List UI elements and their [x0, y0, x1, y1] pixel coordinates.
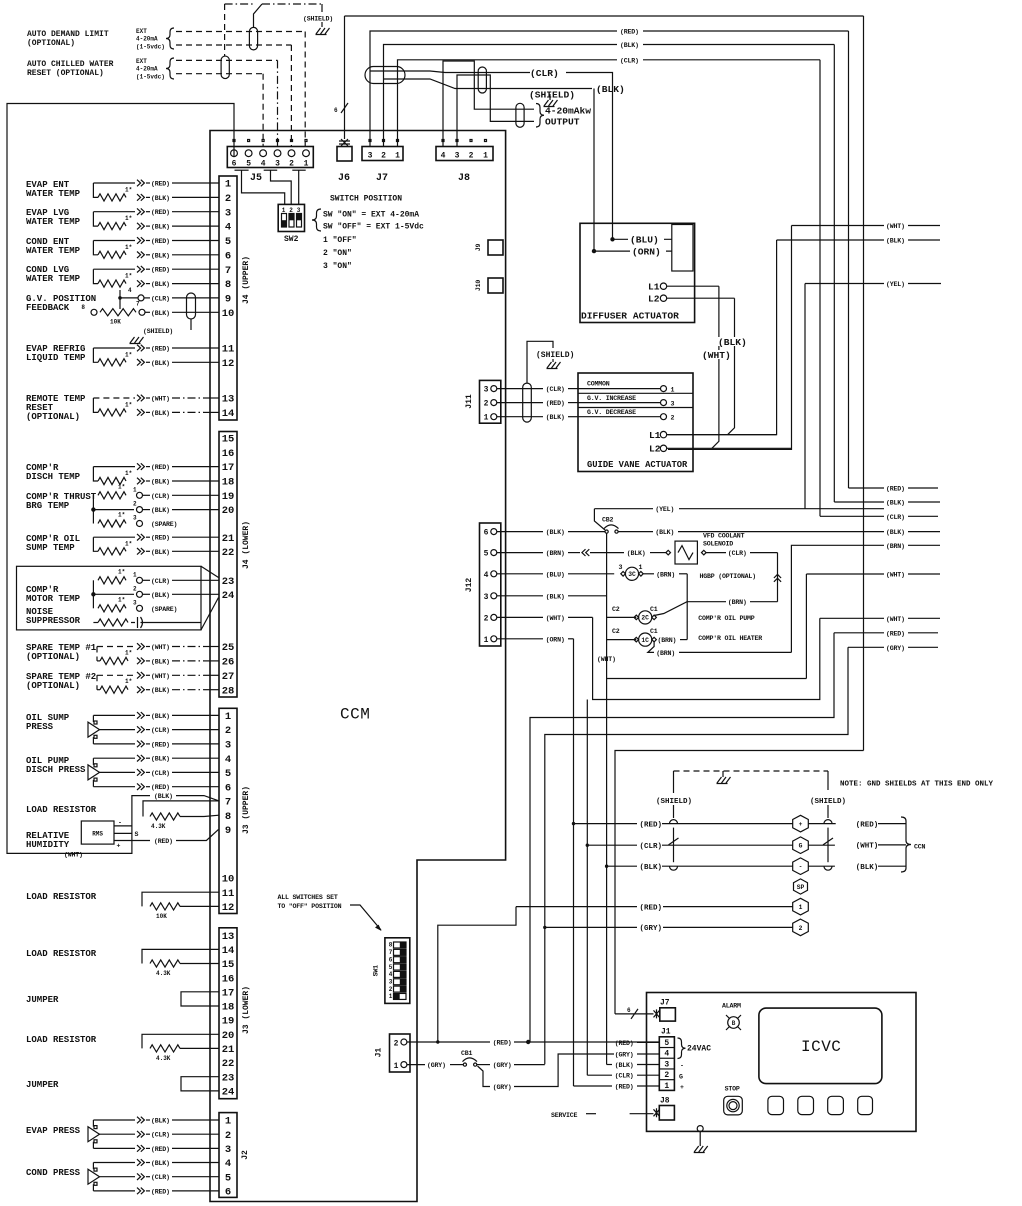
gva G.V. INCREASE terminal	[578, 395, 675, 408]
svg-text:3: 3	[664, 1060, 669, 1069]
svg-text:(WHT): (WHT)	[886, 572, 905, 579]
svg-text:(SPARE): (SPARE)	[151, 521, 177, 528]
svg-text:20: 20	[222, 505, 235, 517]
svg-text:DIFFUSER ACTUATOR: DIFFUSER ACTUATOR	[581, 311, 679, 322]
svg-text:(CLR): (CLR)	[620, 57, 639, 64]
CCM module board outline	[210, 131, 506, 1202]
svg-text:J11: J11	[465, 394, 474, 409]
svg-text:1: 1	[133, 571, 137, 578]
svg-text:(YEL): (YEL)	[655, 506, 674, 513]
svg-text:(BLK): (BLK)	[151, 658, 170, 665]
svg-text:(BLK): (BLK)	[546, 414, 565, 421]
resistor thermistor	[98, 280, 126, 287]
wire 2C C2 stub	[607, 616, 637, 618]
svg-text:3: 3	[671, 401, 675, 408]
svg-text:11: 11	[222, 344, 235, 356]
wire icvc J1-1 (RED)	[574, 1084, 660, 1091]
svg-text:5: 5	[225, 768, 231, 780]
svg-text:1: 1	[225, 711, 231, 723]
svg-text:3: 3	[368, 152, 373, 161]
wire (WHT) top tail	[908, 225, 940, 227]
svg-text:(BRN): (BRN)	[656, 571, 675, 578]
connector icvc J7	[654, 999, 676, 1022]
shield capsule J11	[523, 383, 532, 422]
svg-text:L2: L2	[648, 294, 660, 305]
wire (BLK) field top	[777, 239, 884, 241]
svg-text:STOP: STOP	[725, 1085, 740, 1092]
label (WHT) margin pump	[806, 573, 884, 575]
svg-text:(GRY): (GRY)	[615, 1052, 634, 1059]
svg-text:AUTO CHILLED WATER: AUTO CHILLED WATER	[27, 60, 114, 69]
svg-text:1*: 1*	[118, 483, 125, 490]
svg-text:(OPTIONAL): (OPTIONAL)	[26, 412, 80, 422]
svg-text:12: 12	[222, 358, 235, 370]
label (RED) hex1	[637, 902, 663, 911]
wire spare sensor loop	[97, 647, 135, 661]
svg-text:VFD COOLANT: VFD COOLANT	[703, 533, 745, 540]
softkey button 2	[798, 1096, 814, 1114]
wire J11-2 (RED)	[497, 400, 578, 407]
svg-text:G: G	[799, 843, 803, 850]
svg-text:15: 15	[222, 434, 235, 446]
resistor thermistor	[98, 251, 126, 258]
svg-text:LOAD RESISTOR: LOAD RESISTOR	[26, 892, 97, 902]
svg-text:2: 2	[394, 1040, 399, 1049]
wire bundle row 5 comm	[615, 751, 864, 1014]
svg-text:2: 2	[225, 1130, 231, 1142]
node (BLU)	[610, 233, 672, 246]
svg-text:7: 7	[389, 949, 393, 956]
wire service to J8	[630, 1113, 654, 1115]
wire hex2 (GRY) row	[543, 926, 546, 929]
svg-text:4.3K: 4.3K	[156, 970, 171, 977]
svg-text:(GRY): (GRY)	[427, 1062, 446, 1069]
svg-text:C1: C1	[650, 606, 658, 613]
label (CLR) margin	[820, 515, 884, 517]
svg-text:24VAC: 24VAC	[687, 1045, 711, 1054]
connector J1 ccm	[390, 1034, 411, 1072]
svg-text:(SHIELD): (SHIELD)	[529, 90, 575, 101]
svg-text:(BLK): (BLK)	[151, 507, 170, 514]
svg-text:4: 4	[225, 1158, 231, 1170]
svg-text:10: 10	[222, 874, 235, 886]
wire reset leads	[137, 395, 219, 417]
node (ORN)	[592, 245, 672, 258]
svg-text:8: 8	[81, 304, 85, 311]
resistor thermistor	[98, 548, 126, 555]
wire shield drain	[190, 319, 192, 330]
wire (YEL) tail	[908, 283, 941, 285]
svg-text:GUIDE VANE ACTUATOR: GUIDE VANE ACTUATOR	[587, 460, 688, 470]
wire demand limit + to J5 pin1	[176, 31, 305, 33]
wire ccm J1-2 riser to hex1	[438, 907, 516, 1042]
J5 pin group brackets	[235, 169, 306, 171]
wire sensor loop	[93, 269, 135, 283]
svg-text:(RED): (RED)	[151, 784, 170, 791]
svg-text:J8: J8	[458, 173, 470, 184]
svg-text:(ORN): (ORN)	[632, 247, 661, 258]
connector J9	[488, 240, 503, 255]
wire J7 pin1 riser to (CLR) bus	[398, 60, 618, 147]
svg-text:(RED): (RED)	[151, 1146, 170, 1153]
svg-text:1: 1	[671, 387, 675, 394]
gva G.V. DECREASE terminal	[578, 409, 675, 422]
svg-text:1*: 1*	[125, 273, 132, 280]
wire evap press leads	[93, 1117, 219, 1153]
solenoid VFD coolant	[666, 541, 706, 564]
wire (CLR) bus right	[643, 59, 820, 61]
wire net orn down	[573, 639, 575, 1086]
svg-text:L1: L1	[648, 282, 660, 293]
svg-text:J4 (UPPER): J4 (UPPER)	[242, 256, 251, 304]
svg-text:CB1: CB1	[461, 1050, 473, 1057]
svg-text:-: -	[680, 1063, 684, 1070]
label (BLK) diffuser drop	[718, 337, 751, 346]
svg-text:1: 1	[483, 152, 488, 161]
wire ccn dashed shield tie	[674, 770, 829, 772]
diffuser L2 terminal	[648, 294, 735, 305]
svg-text:J1: J1	[375, 1048, 384, 1058]
ground ccn shields	[722, 771, 724, 777]
wire hex G right	[808, 844, 835, 846]
connector J2	[219, 1113, 237, 1199]
svg-text:3: 3	[389, 978, 393, 985]
svg-text:CCM: CCM	[340, 706, 370, 724]
svg-text:HGBP (OPTIONAL): HGBP (OPTIONAL)	[700, 573, 756, 580]
svg-text:(BLK): (BLK)	[627, 550, 646, 557]
label AUTO DEMAND LIMIT (OPTIONAL)	[27, 30, 109, 48]
wire suppressor tie to pin 24	[201, 598, 219, 630]
svg-text:22: 22	[222, 547, 235, 559]
svg-text:BRG TEMP: BRG TEMP	[26, 501, 70, 511]
breaker CB1	[461, 1050, 477, 1066]
svg-text:17: 17	[222, 987, 235, 999]
svg-text:(BLK): (BLK)	[615, 1062, 634, 1069]
svg-text:(WHT): (WHT)	[856, 843, 879, 851]
svg-text:(SHIELD): (SHIELD)	[536, 351, 574, 360]
svg-text:J3 (UPPER): J3 (UPPER)	[242, 786, 251, 834]
svg-text:2: 2	[225, 725, 231, 737]
terminal hex 1	[793, 898, 809, 915]
wire CB1 branch (GRY) to icvc J1-4	[478, 1054, 615, 1091]
wire ccn shield left stem	[673, 771, 675, 793]
svg-text:(CLR): (CLR)	[151, 578, 170, 585]
diffuser L1 terminal	[648, 282, 719, 293]
label AUTO CHILLED WATER RESET (OPTIONAL)	[27, 60, 114, 78]
wire comm bus top	[345, 15, 864, 17]
svg-text:1*: 1*	[125, 470, 132, 477]
wire twisted pair CLR	[370, 71, 530, 73]
wire bus comm vertical	[863, 16, 865, 751]
wire oil pump disch press leads	[93, 755, 219, 791]
svg-text:1*: 1*	[118, 512, 125, 519]
svg-text:COMMON: COMMON	[587, 381, 610, 388]
wire J5 to SW2 switch 3	[298, 170, 300, 204]
wire leads with labels	[137, 463, 219, 485]
wire icvc J1-2 (CLR)	[587, 1073, 659, 1080]
svg-text:WATER TEMP: WATER TEMP	[26, 189, 81, 199]
shield capsule J7 pair	[365, 67, 405, 84]
svg-text:8: 8	[389, 942, 393, 949]
svg-text:G.V. INCREASE: G.V. INCREASE	[587, 395, 636, 402]
svg-text:LOAD RESISTOR: LOAD RESISTOR	[26, 1035, 97, 1045]
svg-text:10: 10	[222, 308, 235, 320]
svg-text:(OPTIONAL): (OPTIONAL)	[26, 652, 80, 662]
label EXT 4-20mA input 2	[136, 58, 174, 81]
svg-text:SW "ON" = EXT 4-20mA: SW "ON" = EXT 4-20mA	[323, 211, 419, 220]
label (GRY) icvc feed	[848, 646, 884, 648]
wire bundle row 4 gry	[545, 647, 848, 1064]
svg-text:(RED): (RED)	[151, 267, 170, 274]
box DIFFUSER ACTUATOR	[580, 223, 695, 322]
svg-text:L1: L1	[649, 430, 661, 441]
wire sensor loop	[93, 183, 135, 197]
svg-text:14: 14	[222, 945, 235, 957]
svg-text:NOTE: GND SHIELDS AT THIS END: NOTE: GND SHIELDS AT THIS END ONLY	[840, 781, 994, 789]
svg-text:1: 1	[225, 1116, 231, 1128]
wire CB2 out (BLK) row	[618, 529, 884, 536]
svg-text:6: 6	[225, 782, 231, 794]
label (WHT) diffuser drop	[702, 350, 735, 359]
wire (RED) bus to right	[643, 30, 849, 32]
wire CB2 feed down	[606, 533, 608, 678]
wire icvc J1-3 (BLK)	[607, 1062, 660, 1069]
svg-text:(BLK): (BLK)	[546, 529, 565, 536]
resistor thermistor	[98, 223, 126, 230]
label (WHT) icvc feed	[820, 617, 884, 619]
svg-text:(OPTIONAL): (OPTIONAL)	[26, 681, 80, 691]
svg-text:13: 13	[222, 394, 235, 406]
svg-text:3: 3	[455, 152, 460, 161]
wire J12-1 (ORN)	[497, 636, 574, 643]
connector J10	[488, 278, 503, 293]
svg-text:(BLK): (BLK)	[151, 687, 170, 694]
svg-text:28: 28	[222, 685, 235, 697]
svg-text:SERVICE: SERVICE	[551, 1112, 578, 1119]
arrow to SW1	[350, 905, 382, 931]
wire 1C C1 jog to (BRN) row	[648, 642, 792, 657]
svg-text:(BLK): (BLK)	[151, 479, 170, 486]
softkey button 1	[768, 1096, 784, 1114]
terminal hex +	[793, 815, 809, 832]
wire ccn (BLK) cable	[856, 864, 906, 872]
svg-text:(RED): (RED)	[856, 821, 879, 829]
svg-text:20: 20	[222, 1030, 235, 1042]
svg-text:(BLK): (BLK)	[151, 310, 170, 317]
svg-text:EXT: EXT	[136, 58, 147, 65]
wire spare leads	[137, 643, 219, 665]
wire J11-3 (CLR)	[497, 386, 578, 393]
svg-text:4: 4	[664, 1050, 669, 1059]
contactor 1C	[612, 628, 658, 646]
svg-text:7: 7	[225, 265, 231, 277]
wire sensor loop	[93, 348, 135, 362]
wire leads with labels	[137, 208, 219, 230]
svg-text:9: 9	[225, 825, 231, 837]
svg-text:COND PRESS: COND PRESS	[26, 1168, 81, 1178]
resistor load 10K	[142, 892, 219, 920]
svg-text:7: 7	[136, 301, 140, 308]
svg-text:(BLK): (BLK)	[886, 238, 905, 245]
svg-text:(BLK): (BLK)	[596, 84, 625, 95]
svg-text:(RED): (RED)	[151, 1188, 170, 1195]
sensor RMS relative humidity	[81, 821, 114, 844]
svg-text:(BLK): (BLK)	[151, 1160, 170, 1167]
svg-text:1*: 1*	[125, 215, 132, 222]
svg-text:EVAP PRESS: EVAP PRESS	[26, 1126, 81, 1136]
wire 2C C1 to (BRN)	[654, 599, 777, 615]
label (RED) margin	[849, 487, 885, 489]
wire J12-4 (BLU) to 3C	[497, 571, 614, 578]
svg-text:1: 1	[664, 1082, 669, 1091]
diffuser terminal block	[672, 225, 693, 272]
svg-text:(WHT): (WHT)	[546, 615, 565, 622]
svg-text:9: 9	[225, 294, 231, 306]
svg-text:(BLK): (BLK)	[151, 1118, 170, 1125]
svg-text:22: 22	[222, 1058, 235, 1070]
label VFD COOLANT SOLENOID	[703, 533, 745, 548]
svg-text:(GRY): (GRY)	[493, 1084, 512, 1091]
DIP switch SW2	[278, 204, 304, 231]
svg-text:2: 2	[469, 152, 474, 161]
wire YEL drop to CB2	[594, 509, 605, 530]
wire pot wiper to pin 9	[120, 295, 219, 303]
wire sensor loop	[93, 537, 135, 551]
svg-text:2: 2	[799, 925, 803, 932]
svg-text:6: 6	[232, 160, 237, 169]
wire spare sensor loop	[97, 675, 135, 689]
connector J7	[362, 140, 403, 161]
resistor load 4.3K	[142, 949, 219, 977]
alarm bell icon	[722, 1003, 741, 1031]
svg-text:(CLR): (CLR)	[151, 1132, 170, 1139]
svg-text:3: 3	[225, 207, 231, 219]
svg-text:1*: 1*	[125, 540, 132, 547]
svg-text:26: 26	[222, 657, 235, 669]
connector J5	[227, 140, 313, 169]
svg-text:L2: L2	[649, 444, 661, 455]
svg-text:SOLENOID: SOLENOID	[703, 541, 733, 548]
svg-text:1: 1	[389, 993, 393, 1000]
svg-text:2: 2	[225, 193, 231, 205]
svg-text:(BLU): (BLU)	[546, 571, 565, 578]
svg-text:J5: J5	[250, 173, 262, 184]
svg-text:6: 6	[225, 1187, 231, 1199]
svg-text:14: 14	[222, 408, 235, 420]
svg-text:(RED): (RED)	[640, 904, 663, 912]
svg-text:(BLK): (BLK)	[151, 549, 170, 556]
svg-text:SUPPRESSOR: SUPPRESSOR	[26, 616, 81, 626]
svg-text:1*: 1*	[118, 568, 125, 575]
wire hex + right	[808, 823, 836, 825]
label (RED) icvc feed	[834, 632, 884, 634]
icvc chassis ground	[694, 1126, 708, 1153]
contactor 3C	[619, 564, 644, 580]
wire 3C (BRN) out	[643, 571, 687, 578]
wire cw reset - to J5 pin4	[176, 73, 263, 75]
svg-text:J10: J10	[475, 280, 482, 292]
svg-text:(BLK): (BLK)	[620, 42, 639, 49]
wire demand limit - to J5 pin2	[176, 44, 291, 46]
svg-text:(BLU): (BLU)	[630, 235, 659, 246]
wire spare leads	[137, 672, 219, 694]
svg-text:(RED): (RED)	[151, 238, 170, 245]
svg-text:(RED): (RED)	[640, 821, 663, 829]
wire (BLK) top tail	[908, 239, 940, 241]
contactor 2C	[612, 606, 658, 624]
svg-text:+: +	[117, 843, 121, 850]
svg-text:EXT: EXT	[136, 28, 147, 35]
svg-text:1: 1	[394, 1062, 399, 1071]
svg-text:(WHT): (WHT)	[151, 644, 170, 651]
sensor motor temp dual thermistor	[91, 568, 134, 612]
ground J7 shield	[544, 100, 558, 107]
svg-text:G: G	[679, 1073, 683, 1080]
wire twisted pair BLK	[384, 79, 593, 89]
svg-text:(BRN): (BRN)	[728, 599, 747, 606]
wire oil sump press leads	[93, 712, 219, 748]
resistor load 4.3K	[142, 1034, 219, 1062]
svg-text:(RED): (RED)	[151, 535, 170, 542]
svg-text:12: 12	[222, 902, 235, 914]
bracket 24VAC	[678, 1038, 686, 1059]
wire J5 to SW2 switch 1	[242, 170, 285, 204]
svg-text:6: 6	[225, 250, 231, 262]
svg-text:17: 17	[222, 462, 235, 474]
svg-text:6: 6	[627, 1007, 631, 1014]
sensor thrust brg dual thermistor	[91, 483, 134, 527]
svg-text:18: 18	[222, 477, 235, 489]
transducer evap press	[88, 1120, 100, 1148]
wire (WHT) field top	[792, 225, 885, 227]
svg-text:C2: C2	[612, 628, 620, 635]
label (GRY) hex2	[637, 922, 663, 931]
svg-text:3: 3	[225, 740, 231, 752]
svg-text:1*: 1*	[118, 596, 125, 603]
svg-text:(BLK): (BLK)	[151, 592, 170, 599]
wire J5 pin6 riser	[233, 147, 235, 157]
svg-text:(BRN): (BRN)	[658, 637, 677, 644]
svg-text:2: 2	[389, 986, 393, 993]
softkey button 3	[828, 1096, 844, 1114]
wire net a down	[606, 679, 608, 1065]
wire suppressor tie to pin 23	[201, 566, 219, 577]
wire J7 pin2 riser to (BLK) bus	[384, 45, 618, 147]
svg-text:1 "OFF": 1 "OFF"	[323, 236, 357, 245]
wire ccn red row	[572, 822, 575, 825]
svg-text:(YEL): (YEL)	[886, 281, 905, 288]
connector J4 lower	[219, 432, 237, 698]
gva L1 terminal	[649, 430, 777, 441]
svg-text:ALARM: ALARM	[722, 1003, 741, 1010]
wire pot end to pin 10	[145, 310, 219, 317]
shield capsule G.V. feedback	[187, 293, 196, 319]
svg-text:(RED): (RED)	[546, 400, 565, 407]
svg-text:(CLR): (CLR)	[546, 386, 565, 393]
svg-text:7: 7	[225, 797, 231, 809]
svg-text:ALL SWITCHES SET: ALL SWITCHES SET	[278, 894, 338, 901]
svg-text:HUMIDITY: HUMIDITY	[26, 840, 70, 850]
svg-text:(BLK): (BLK)	[886, 500, 905, 507]
svg-text:ICVC: ICVC	[801, 1038, 841, 1056]
wire shield drain to ground	[225, 4, 322, 56]
svg-text:JUMPER: JUMPER	[26, 995, 59, 1005]
svg-text:23: 23	[222, 1072, 235, 1084]
svg-text:(RED): (RED)	[886, 486, 905, 493]
svg-text:(CLR): (CLR)	[886, 514, 905, 521]
svg-text:COMP'R OIL PUMP: COMP'R OIL PUMP	[698, 615, 755, 622]
svg-text:(RED): (RED)	[615, 1084, 634, 1091]
